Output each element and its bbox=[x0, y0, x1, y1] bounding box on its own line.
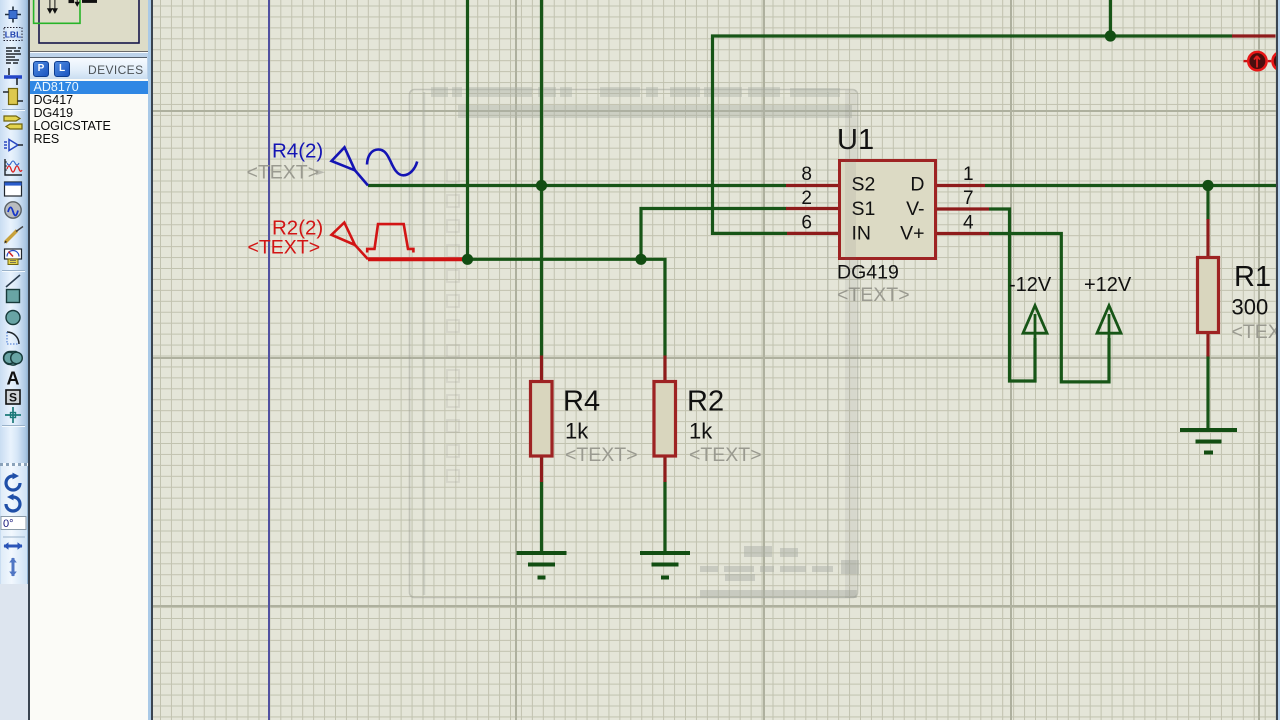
junction at bus/R4 wire bbox=[536, 180, 547, 191]
ghost toolbar stripe 2 bbox=[458, 105, 852, 118]
ghost arrow mark bbox=[316, 170, 325, 176]
tool icon: 2D symbol bbox=[6, 390, 20, 405]
tool icon: bus bbox=[4, 68, 22, 85]
svg-text:300: 300 bbox=[1232, 295, 1269, 320]
selected item AD8170 bbox=[30, 81, 149, 94]
wire: vertical from top at x=467.5 bbox=[466, 0, 469, 259]
svg-text:6: 6 bbox=[801, 213, 812, 234]
separator under angle box bbox=[3, 536, 25, 538]
pin 2 stub bbox=[786, 207, 838, 210]
svg-text:+12V: +12V bbox=[1084, 274, 1132, 296]
wire: red animated segment R2 gen to junction bbox=[368, 257, 468, 261]
sheet outline (navy) in preview bbox=[39, 0, 139, 43]
junction at top bus bbox=[1105, 30, 1116, 41]
tool icon: voltage probe bbox=[4, 227, 23, 244]
tool icon: graph bbox=[5, 159, 22, 175]
ghost icon column bbox=[447, 170, 459, 482]
svg-text:R1: R1 bbox=[1234, 261, 1271, 293]
devices header bbox=[30, 57, 147, 81]
tool icon: 2D line bbox=[6, 275, 20, 287]
resistor R1 pin stubs bbox=[1206, 219, 1209, 257]
schematic overview preview window bbox=[30, 0, 148, 52]
junction at bus/R1 bbox=[1202, 180, 1213, 191]
resistor R2 pin stubs bbox=[663, 356, 666, 382]
svg-text:1: 1 bbox=[963, 164, 974, 185]
svg-text:<TEXT>: <TEXT> bbox=[565, 444, 638, 466]
tool icon: 2D text A bbox=[7, 369, 20, 389]
wire: dark red stub at top right bbox=[1232, 34, 1276, 37]
svg-text:8: 8 bbox=[801, 164, 812, 185]
ground under R4 bbox=[517, 553, 567, 578]
tool icon: subcircuit bbox=[3, 89, 23, 105]
DEVICES label bbox=[88, 63, 143, 77]
P button bbox=[33, 61, 49, 77]
left toolbar column bbox=[0, 0, 28, 720]
left panel bbox=[30, 0, 149, 720]
wire: pin V- to -12V rail bbox=[989, 209, 1035, 381]
tool icon: junction dot mode bbox=[5, 7, 21, 23]
svg-text:2: 2 bbox=[801, 188, 812, 209]
sheet border (blue vertical line) bbox=[268, 0, 270, 720]
power terminal -12V arrow bbox=[1023, 306, 1047, 359]
generator R4(2) symbol (sine) bbox=[332, 147, 418, 185]
junction at S1 branch bbox=[635, 254, 646, 265]
ghost right shadow band bbox=[845, 90, 856, 598]
svg-text:V-: V- bbox=[906, 198, 924, 220]
tool icon: 2D circle bbox=[6, 311, 20, 325]
tool icon: mirror horizontal bbox=[4, 542, 23, 550]
tool icon: rotate clockwise bbox=[6, 473, 20, 490]
power terminal +12V arrow bbox=[1097, 306, 1121, 359]
wire: top bus y=36 and drop to pin IN bbox=[713, 36, 1233, 233]
svg-text:<TEXT>: <TEXT> bbox=[248, 237, 321, 259]
tool icon: 2D marker bbox=[5, 407, 21, 423]
tool icon: tape window bbox=[5, 182, 22, 196]
op-amp U1 body (DG419 analog switch) bbox=[840, 161, 936, 259]
pin 7 stub bbox=[937, 207, 989, 210]
wire: vertical from top at x=541.5 down to R4 bbox=[540, 0, 543, 357]
rotation angle box 0 deg bbox=[1, 517, 26, 531]
generator R2(2) symbol (pulse) bbox=[332, 223, 414, 260]
toolbar dark edge bbox=[28, 0, 30, 720]
wire: vertical stub at x=1110 top bbox=[1109, 0, 1112, 36]
wire: junction x=641 up to pin S1 bbox=[641, 209, 787, 260]
tool icon: text script bbox=[6, 48, 21, 63]
tool icon: terminal bbox=[4, 140, 23, 151]
tool icon: component device bbox=[4, 116, 22, 129]
resistor R4 pin stubs bbox=[540, 356, 543, 382]
tool icon: 2D box bbox=[7, 290, 20, 303]
ground under R1 bbox=[1180, 430, 1237, 453]
tool icon: 2D arc bbox=[7, 332, 19, 344]
wire: junction down to R1 bbox=[1206, 186, 1209, 221]
wire: pin V+ to +12V rail bbox=[989, 234, 1109, 382]
junction at red wire end bbox=[462, 254, 473, 265]
ghost bottom scrollbar bbox=[700, 546, 859, 598]
svg-text:4: 4 bbox=[963, 213, 974, 234]
ghost window outline (faded redraw artifact) bbox=[410, 90, 858, 598]
wire: horizontal y=259.3 to R2 drop bbox=[468, 259, 666, 356]
ground under R2 bbox=[640, 553, 690, 578]
resistor R4 body bbox=[531, 382, 553, 457]
svg-text:7: 7 bbox=[963, 188, 974, 209]
svg-text:<TEXT>: <TEXT> bbox=[247, 162, 320, 184]
svg-text:1k: 1k bbox=[565, 419, 589, 444]
resistor R1 body bbox=[1198, 258, 1219, 333]
wire: R2 bottom to ground bbox=[663, 482, 666, 554]
ghost toolbar stripe 1 bbox=[431, 87, 840, 97]
svg-text:<TEXT>: <TEXT> bbox=[689, 444, 762, 466]
svg-text:1k: 1k bbox=[689, 419, 713, 444]
viewport rect (green) in preview bbox=[33, 0, 79, 23]
svg-text:R2: R2 bbox=[687, 386, 724, 418]
probe indicator circle 1 bbox=[1244, 52, 1272, 70]
tool icon: rotate anticlockwise bbox=[6, 494, 20, 511]
svg-text:V+: V+ bbox=[900, 223, 924, 245]
pin 4 stub bbox=[937, 232, 989, 235]
mini schematic marks bbox=[47, 0, 96, 13]
pin 8 stub bbox=[542, 186, 1209, 483]
svg-text:R4: R4 bbox=[563, 386, 600, 418]
tool icon: 2D closed path bbox=[3, 352, 22, 366]
wire: main bus right of U1 bbox=[985, 184, 1276, 187]
pin 6 stub bbox=[787, 232, 838, 235]
right window strip bbox=[1278, 0, 1280, 720]
wire: R1 bottom to ground bbox=[1206, 356, 1209, 431]
svg-text:D: D bbox=[910, 174, 924, 196]
tool icon: generator bbox=[5, 202, 21, 218]
device list bbox=[30, 79, 148, 720]
resistor R2 body bbox=[654, 382, 676, 457]
L button bbox=[54, 61, 70, 77]
right canvas dark edge bbox=[148, 0, 151, 720]
tool icon: wire label LBL bbox=[4, 28, 22, 41]
pin 1 stub bbox=[937, 184, 985, 187]
probe indicator circle 2 (clipped) bbox=[1273, 52, 1280, 71]
wire: R4 bottom to ground bbox=[540, 482, 543, 554]
svg-text:<TEXT>: <TEXT> bbox=[1232, 321, 1280, 343]
svg-text:R4(2): R4(2) bbox=[272, 140, 323, 163]
tool icon: instrument bbox=[5, 249, 22, 265]
wire: main bus left (y=185.5) bbox=[368, 0, 1276, 553]
svg-text:-12V: -12V bbox=[1009, 274, 1052, 296]
major grid lines bbox=[268, 0, 270, 720]
tool icon: mirror vertical bbox=[9, 558, 17, 577]
